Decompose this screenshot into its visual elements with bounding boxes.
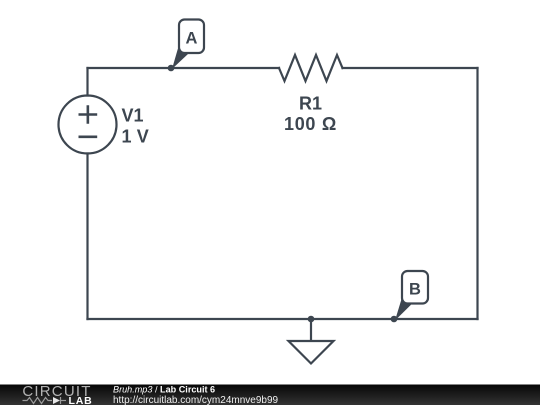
footer bar <box>0 385 540 405</box>
node B flag <box>395 271 428 321</box>
voltage source V1 <box>59 96 117 154</box>
CircuitLab logo <box>22 383 92 405</box>
node A dot <box>168 65 175 72</box>
wire: bottom segment from node B to ground junction <box>311 318 394 320</box>
junction dot at ground <box>308 316 315 323</box>
wire: bottom segment from right corner to node B <box>394 318 478 320</box>
svg-text:http://circuitlab.com/cym24mnv: http://circuitlab.com/cym24mnve9b99 <box>113 395 279 405</box>
svg-text:LAB: LAB <box>69 395 93 405</box>
wire: right vertical segment <box>476 68 478 319</box>
node A flag <box>172 20 204 70</box>
svg-text:Bruh.mp3 / Lab Circuit 6: Bruh.mp3 / Lab Circuit 6 <box>113 384 215 394</box>
wire: top segment from node A to resistor <box>171 67 279 69</box>
svg-text:B: B <box>409 281 421 299</box>
ground <box>289 319 334 364</box>
wire: top segment from resistor to top-right corner <box>343 67 478 69</box>
svg-text:100 Ω: 100 Ω <box>284 114 337 134</box>
svg-text:A: A <box>186 30 198 48</box>
wire: left vertical segment above V1 <box>86 68 88 96</box>
wire: top-left horizontal segment <box>88 67 172 69</box>
wire: bottom segment from ground junction to bottom-left corner <box>88 318 312 320</box>
wire: left vertical segment below V1 <box>86 154 88 320</box>
node B dot <box>391 316 398 323</box>
resistor R1 <box>279 55 343 81</box>
svg-text:V1: V1 <box>122 105 144 125</box>
svg-text:R1: R1 <box>299 94 322 114</box>
